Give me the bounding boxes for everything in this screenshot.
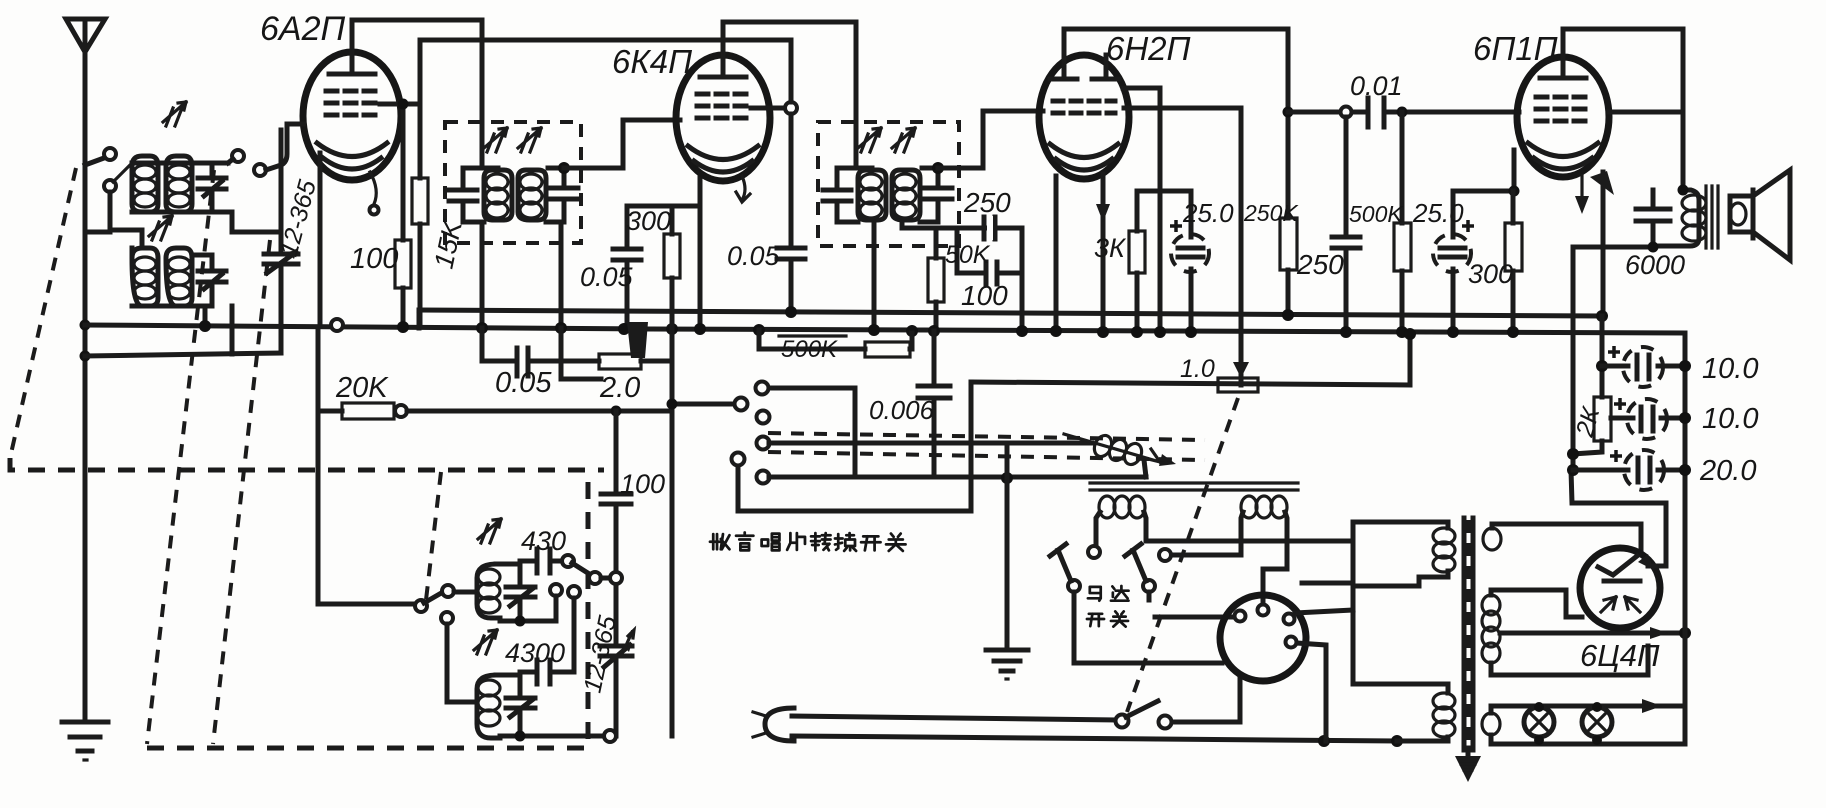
mechanical link dashed horizontal (tuning gang top) [10,458,604,470]
svg-text:4300: 4300 [505,638,565,668]
wire 6P1P cathode to bus [1601,172,1606,316]
svg-text:25.0: 25.0 [1182,198,1234,228]
wire 6K4P cathode [627,178,700,330]
svg-text:6Н2П: 6Н2П [1106,30,1191,67]
wire B+ output (arrow line) [1500,627,1691,639]
core adjust mark (osc coil 1) [478,519,501,543]
wire mains line 2 [792,736,1397,741]
wire coil tops band1 [132,161,192,166]
wire osc tap verticals [550,584,562,596]
motor winding B [1159,496,1287,604]
node osc bottom [604,730,616,742]
svg-text:0.01: 0.01 [1350,71,1403,101]
node IF2 grid [932,162,944,174]
speaker voice coil [1730,196,1753,232]
wire 6A2P osc grid to coil [266,124,304,170]
mechanical link dashed diagonal to oscillator switch [426,472,441,600]
resistor 100 (osc grid leak) [395,99,411,326]
capacitor 25.0 electrolytic (cathode bypass) [1170,191,1209,332]
node transformer top [1678,185,1689,196]
resistor 500K (grid leak 6P1P) [1394,107,1411,333]
wire mains line 1 [792,716,1116,720]
resistor 2.0 (AGC) [599,354,672,369]
svg-text:430: 430 [521,526,566,556]
svg-text:6Ц4П: 6Ц4П [1580,638,1660,673]
svg-text:25.0: 25.0 [1412,198,1464,228]
pilot lamps [1524,699,1662,745]
potentiometer 1.0 (volume) [1218,362,1258,392]
wire selector bottom row [769,475,1146,480]
wire 6N2P plate to 250K [1064,29,1288,218]
capacitor 0.006 [918,331,950,477]
svg-text:0.05: 0.05 [727,241,781,271]
svg-text:20.0: 20.0 [1699,455,1756,487]
node pickup return [1001,472,1013,484]
mains switch [1116,715,1129,728]
B+ rail (upper horizontal) [419,310,1602,316]
tube 6P1P anode flag [1590,171,1614,195]
IF1 primary tuning capacitor [449,168,484,222]
wire 6A2P plate to IF1 [352,20,482,168]
IF2 primary tuning capacitor [823,168,858,222]
capacitor 100 (osc grid) [601,494,631,644]
core adjust mark (osc coil 2) [474,630,497,654]
antenna coil L2 (secondary, band 1) [166,156,192,212]
power transformer primary top winding [1302,522,1455,586]
label motor switch (Chinese) [1088,587,1101,601]
wire IF1 primary bottom to bus [480,222,485,325]
switch contact terminals (band switch, top) [104,148,116,160]
svg-text:6К4П: 6К4П [612,43,692,80]
node dots on B+ rail [1282,309,1294,321]
wire IF2 primary top feed [856,166,872,171]
oscillator coil 2 [441,612,604,738]
svg-text:300: 300 [1468,259,1513,289]
node A (antenna bus joints) [80,320,91,331]
wire AGC return to antenna ground [85,353,281,356]
tube 6P1P plate [1540,76,1586,81]
IF2 secondary tuning capacitor [920,168,952,222]
resistor 3K (cathode) [1129,191,1145,332]
node screen (open circle) [785,102,797,114]
IF transformer 1 shield (dashed box) [445,122,581,243]
svg-text:10.0: 10.0 [1702,403,1758,435]
capacitor 25.0 electrolytic (6P1P cathode) [1433,191,1474,332]
svg-text:100: 100 [961,280,1008,311]
tube 6K4P anode lead arrow [736,176,750,202]
ground bus (main, with junction dots) [85,325,1685,333]
wire IF2 to 6N2P grid [938,111,1043,168]
oscillator coil 1 [477,561,556,621]
capacitor 20.0 electrolytic (filter 3) [1567,448,1691,490]
node IF1 grid [558,162,570,174]
tube 6K4P plate [700,75,746,80]
wire selector to osc rail [672,402,734,407]
wire screen rail top [420,38,788,43]
antenna coil L4 (band 2) [166,248,192,306]
ground (chassis earth, bottom left) [62,722,108,760]
svg-text:100: 100 [620,469,665,499]
oscillator band switch [415,585,477,612]
svg-text:6П1П: 6П1П [1473,30,1558,67]
volume control wire [971,334,1410,385]
tube 6K4P grids [697,92,751,97]
core adjust marks (IF2) [858,128,881,152]
wire IF2 primary bottom to bus [872,222,877,330]
svg-text:20K: 20K [335,372,389,404]
tube 6P1P cathode arrow [1580,176,1583,206]
wire detector to ground post [769,441,1092,446]
wire 6P1P screen [1609,110,1683,115]
wire IF1 secondary return [561,328,601,379]
output transformer core [1706,186,1718,248]
node dots on ground bus [199,320,211,332]
tube 6K4P envelope [676,55,770,202]
wire IF1 to 6K4P grid [564,120,680,168]
wire 6N2P cathode 1 [1054,176,1059,331]
wire 6A2P grid2 to dropping rail [380,102,420,107]
capacitor 10.0 electrolytic (filter 1) [1596,346,1691,387]
resistor 15K (screen dropper) [412,178,428,325]
radio/phono selector switch terminals [756,382,769,395]
svg-text:3К: 3К [1094,233,1127,263]
capacitor 0.05 (6K4P cathode bypass) [613,206,641,329]
core adjust mark (ant coil 1) [163,102,186,126]
antenna coil L3 (band 2) [132,248,158,306]
ground (center) [986,650,1028,679]
svg-text:500K: 500K [781,336,838,363]
mechanical link dashed diagonal 2 [147,170,214,744]
IF transformer 2 shield (dashed box) [818,122,959,246]
svg-text:0.05: 0.05 [580,262,634,292]
node 0.01 out [1341,107,1352,118]
wire cathode network [1453,150,1514,191]
power transformer core [1464,518,1473,750]
motor [1220,595,1306,681]
wire coupling row [1288,110,1519,115]
core adjust marks (IF1) [484,128,507,152]
tube 6N2P cathode arcs [1050,144,1118,158]
tube 6P1P envelope [1517,57,1614,214]
capacitor 250 (tone) [1332,117,1360,331]
speaker cone [1753,170,1790,260]
svg-text:500K: 500K [1349,201,1404,227]
tube 6N2P envelope [1039,55,1129,179]
mechanical link dashed (selector) [768,433,1205,440]
wire osc feed vertical [611,406,622,417]
svg-text:50K: 50K [945,241,991,269]
tuning gang capacitor section 1 (12-365) [264,130,298,353]
junction blob to 2.0 [627,322,648,358]
trimmer capacitor (band 2) [192,255,226,306]
capacitor 4300 [520,660,574,684]
svg-text:10.0: 10.0 [1702,353,1758,385]
wire 6K4P plate to IF2 [723,22,856,168]
wire coil bottoms band1 [132,212,281,232]
wire to chassis ground [1005,443,1010,648]
wire 6K4P screen tap [751,106,785,111]
wire selector left leg [738,382,971,511]
wire selector top loop [769,388,855,477]
wire antenna down-lead [83,52,88,718]
wire transformer bottom return [1573,247,1653,318]
ground (transformer frame) [1455,748,1481,782]
tuning gang capacitor section 2 (12-365) [600,630,634,736]
mechanical link dashed diagonal 3 [213,240,270,744]
tube 6K4P cathode arcs [688,146,758,160]
capacitor 250 (detector coupling) [984,216,995,240]
svg-text:300: 300 [626,206,671,236]
antenna [66,19,105,52]
capacitor 0.05 (AGC decoupling) [482,328,599,376]
resistor 250K (plate load) [1280,218,1297,315]
wire detector row [902,222,1022,228]
svg-text:2К: 2К [1570,403,1605,440]
transformer pilot/heater winding [1482,706,1685,744]
wire 6N2P cathode 2 with arrow [1096,174,1110,332]
trimmer capacitor (band 1) [192,163,228,212]
capacitor 100 (AGC filter) [957,262,1022,284]
svg-text:0.006: 0.006 [869,395,935,425]
transformer HV secondary [1483,524,1641,551]
output transformer primary cap [1636,190,1670,247]
tube 6N2P grids [1053,99,1115,104]
wire 6N2P triode2 plate side tap [1123,88,1160,332]
wire IF1 secondary bottom to AGC line [559,222,564,356]
wire antenna tap to coil [85,158,104,165]
svg-text:1.0: 1.0 [1180,355,1215,383]
mechanical link dashed gang (left diagonal) [10,168,76,458]
wire detector out vertical [1020,228,1025,331]
resistor 50K (detector load) [928,228,944,331]
tube 6P1P grids [1536,95,1590,100]
wire rectifier plate feed [1571,470,1666,566]
capacitor 0.01 (coupling) [1368,98,1384,127]
mains plug [753,708,794,741]
svg-text:6000: 6000 [1625,250,1685,280]
mechanical link dashed bottom [147,472,588,748]
power transformer primary bottom winding [1353,684,1455,741]
svg-text:250K: 250K [1243,200,1299,226]
antenna coil L1 (input transformer primary, band 1) [132,156,158,212]
svg-text:250: 250 [963,187,1011,218]
right common rail [1683,333,1688,744]
tube 6A2P plate [329,72,375,77]
tube 6A2P cathode hook [370,172,376,204]
resistor 20K (osc grid) [318,329,672,604]
output transformer primary winding [1653,190,1706,246]
phono pickup coil [1064,433,1176,477]
motor winding A [1088,496,1353,558]
IF2 primary winding [858,170,886,220]
tube 6A2P envelope [303,52,401,215]
node plate junction [1283,107,1294,118]
capacitor 10.0 electrolytic (filter 2) [1611,398,1691,439]
motor switch blades [1050,544,1155,592]
oscillator padder (trimmer in coil 1) [506,564,535,618]
svg-text:0.05: 0.05 [495,367,552,399]
motor autotransformer core [1090,483,1298,490]
wire motor to transformer taps [1295,610,1353,613]
wires band2 [110,230,142,248]
wire IF1 primary top feed [482,166,498,171]
svg-text:100: 100 [350,243,398,275]
B+ filter feed vertical [1571,247,1576,470]
wire 6A2P cathode to bus [318,153,323,324]
tube 6N2P plates [1050,77,1077,82]
IF1 secondary winding [518,170,546,220]
mechanical link dashed (volume to mains switch) [1127,398,1238,712]
svg-text:250: 250 [1296,249,1344,280]
transformer rectifier filament winding [1482,590,1648,675]
tube 6A2P cathode arcs [317,143,387,157]
IF1 primary winding [484,170,512,220]
resistor 300 (6K4P cathode) [664,206,680,278]
motor switch frame [1074,592,1222,663]
svg-text:6А2П: 6А2П [260,10,345,48]
rectifier tube 6C4P [1580,548,1660,628]
tube 6P1P cathode arcs [1528,143,1598,157]
capacitor 0.05 (screen bypass) [777,248,805,312]
trimmer in coil 2 [506,675,535,738]
wire 6N2P triode2 grid to volume control [1124,108,1241,379]
svg-text:15K: 15K [429,217,469,271]
label selector switch (Chinese) [710,534,729,549]
svg-text:2.0: 2.0 [599,372,640,404]
resistor 2K (filter) [1573,397,1611,454]
wire AGC tap [955,228,960,273]
core adjust mark (ant coil 2) [149,216,172,240]
wire 6P1P plate to output transformer [1563,29,1683,190]
wire cathode network top [1137,189,1191,194]
node 6A2P cathode terminal (open) [331,319,343,331]
resistor 300 (6P1P cathode) [1505,191,1522,332]
wire motor feed vertical [1351,541,1356,684]
wire osc right rail [670,278,675,736]
resistor 500K (AGC divider) [759,330,912,357]
IF1 secondary tuning capacitor [546,168,578,222]
wire screen rail drop [789,40,794,246]
IF2 secondary winding [892,170,920,220]
tube 6A2P grids [326,89,380,94]
capacitor 430 [520,549,622,584]
